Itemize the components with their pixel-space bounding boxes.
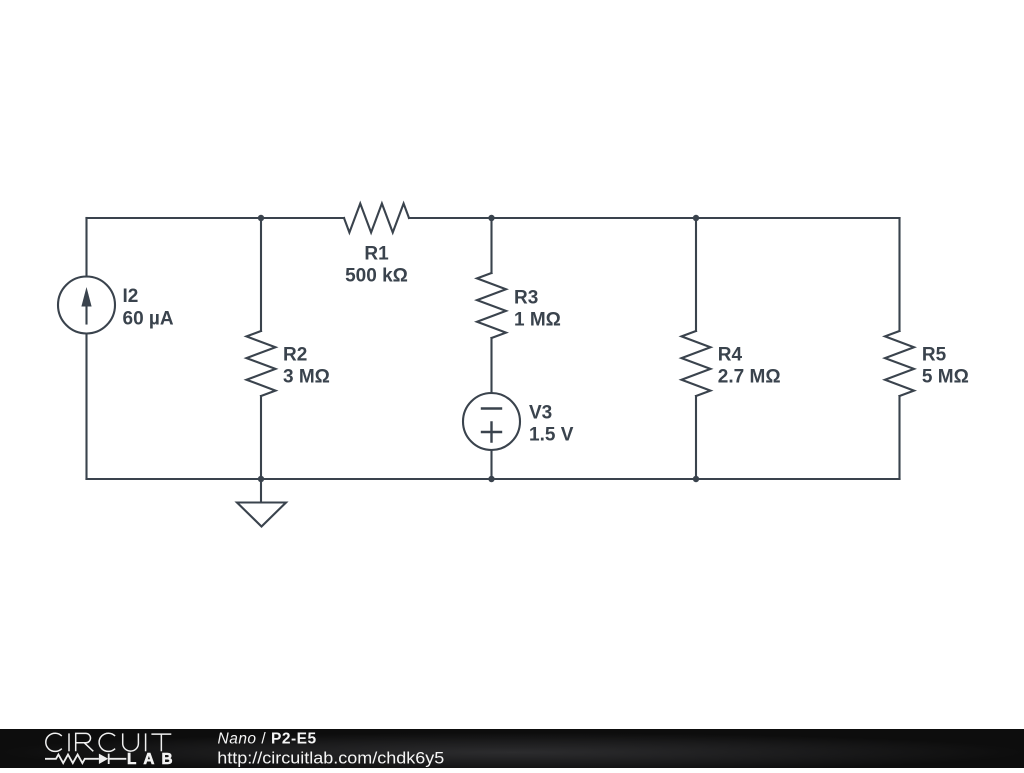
wire R5 branch upper bbox=[898, 218, 900, 331]
resistor R3 bbox=[477, 273, 506, 338]
svg-text:LAB: LAB bbox=[127, 751, 173, 768]
logo resistor squiggle bbox=[45, 755, 99, 764]
svg-text:R4: R4 bbox=[718, 344, 743, 365]
svg-text:60 µA: 60 µA bbox=[123, 309, 174, 330]
node dot bottom R4 bbox=[693, 476, 699, 482]
wire V3 to bottom bbox=[490, 450, 492, 479]
svg-text:500 kΩ: 500 kΩ bbox=[345, 266, 408, 287]
wire left vertical upper bbox=[85, 218, 87, 277]
svg-text:R1: R1 bbox=[364, 244, 389, 265]
footer bar bbox=[0, 729, 1024, 768]
svg-text:http://circuitlab.com/chdk6y5: http://circuitlab.com/chdk6y5 bbox=[217, 749, 444, 768]
wire R4 branch lower bbox=[695, 396, 697, 479]
logo CIRCUIT wordmark bbox=[46, 733, 172, 751]
svg-text:5 MΩ: 5 MΩ bbox=[922, 367, 969, 388]
logo diode bbox=[99, 754, 108, 764]
wire R3 to V3 bbox=[490, 338, 492, 393]
wire R3 branch upper bbox=[490, 218, 492, 273]
svg-text:R5: R5 bbox=[922, 344, 947, 365]
wire top-right horizontal segment bbox=[409, 217, 900, 219]
ground bbox=[237, 479, 286, 527]
svg-text:R2: R2 bbox=[283, 344, 307, 365]
wire R5 branch lower bbox=[898, 396, 900, 479]
wire R2 branch upper bbox=[260, 218, 262, 331]
svg-text:R3: R3 bbox=[514, 287, 538, 308]
node dot top R2 bbox=[258, 215, 264, 221]
wire top-left horizontal segment bbox=[87, 217, 345, 219]
svg-text:V3: V3 bbox=[529, 402, 552, 423]
node dot bottom R2 bbox=[258, 476, 264, 482]
node dot top R3 bbox=[488, 215, 494, 221]
resistor R4 bbox=[682, 331, 711, 396]
current source I2 bbox=[58, 277, 115, 334]
wire bottom horizontal bbox=[87, 478, 900, 480]
wire left vertical lower bbox=[85, 334, 87, 480]
wire R4 branch upper bbox=[695, 218, 697, 331]
voltage source V3 bbox=[463, 393, 520, 450]
wire R2 branch lower bbox=[260, 396, 262, 479]
node dot top R4 bbox=[693, 215, 699, 221]
resistor R1 bbox=[344, 204, 409, 233]
svg-text:I2: I2 bbox=[123, 286, 139, 307]
svg-text:Nano / P2-E5: Nano / P2-E5 bbox=[218, 731, 317, 748]
svg-text:2.7 MΩ: 2.7 MΩ bbox=[718, 367, 781, 388]
resistor R5 bbox=[885, 331, 914, 396]
svg-text:3 MΩ: 3 MΩ bbox=[283, 367, 330, 388]
svg-text:1 MΩ: 1 MΩ bbox=[514, 310, 561, 331]
node dot bottom V3 bbox=[488, 476, 494, 482]
resistor R2 bbox=[247, 331, 276, 396]
svg-text:1.5 V: 1.5 V bbox=[529, 425, 574, 446]
